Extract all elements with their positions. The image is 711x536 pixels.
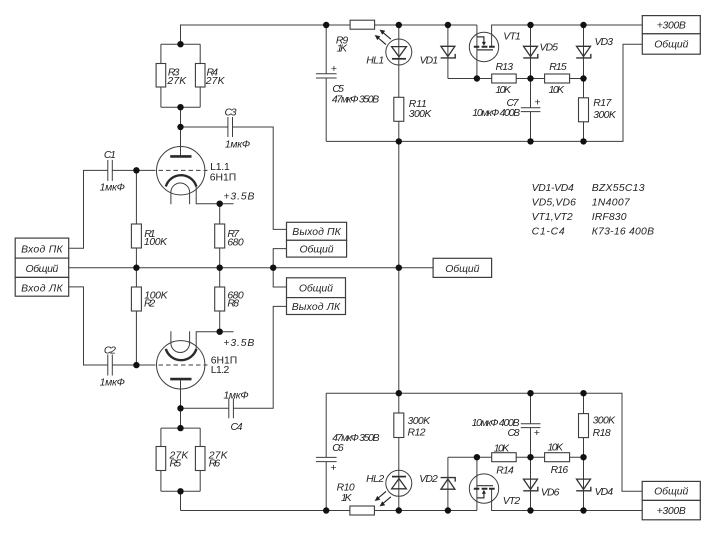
svg-text:VD2: VD2 [419,474,438,485]
svg-text:10мкФ 400В: 10мкФ 400В [472,108,520,119]
svg-text:VD4: VD4 [595,487,614,498]
svg-text:1мкФ: 1мкФ [100,377,125,388]
svg-text:VD1: VD1 [420,55,439,66]
svg-text:+3.5В: +3.5В [223,338,254,349]
svg-text:R6: R6 [209,458,221,469]
svg-text:Вход ЛК: Вход ЛК [21,283,63,294]
svg-text:C1-C4: C1-C4 [532,226,565,237]
svg-text:27K: 27K [166,76,187,87]
svg-text:+: + [331,64,337,75]
svg-text:VD1-VD4: VD1-VD4 [532,183,574,194]
svg-text:VD5,VD6: VD5,VD6 [532,197,577,208]
svg-text:+300В: +300В [657,20,686,31]
svg-text:1мкФ: 1мкФ [225,139,250,150]
svg-text:300K: 300K [593,110,617,121]
svg-text:C1: C1 [104,150,116,161]
svg-text:R18: R18 [593,428,611,439]
svg-text:L1.2: L1.2 [211,365,230,376]
svg-text:+: + [534,97,540,108]
svg-text:C3: C3 [225,107,237,118]
svg-text:C2: C2 [104,346,116,357]
svg-text:R2: R2 [144,298,155,309]
svg-text:300K: 300K [408,416,432,427]
svg-text:Общий: Общий [300,244,334,256]
svg-text:C4: C4 [231,422,243,433]
svg-text:К73-16 400В: К73-16 400В [592,226,654,237]
svg-text:+: + [534,428,540,439]
svg-text:Общий: Общий [654,486,688,498]
svg-text:+: + [330,463,336,474]
svg-text:Общий: Общий [445,263,479,275]
svg-text:R8: R8 [227,298,239,309]
svg-text:+3.5В: +3.5В [224,191,255,202]
svg-text:300K: 300K [593,415,617,426]
svg-text:Выход ЛК: Выход ЛК [292,302,341,313]
svg-text:VT1,VT2: VT1,VT2 [532,212,573,223]
svg-text:R13: R13 [496,62,514,73]
svg-text:R16: R16 [551,465,569,476]
svg-text:R17: R17 [593,98,612,109]
svg-text:BZX55C13: BZX55C13 [592,183,645,194]
svg-text:27K: 27K [205,76,226,87]
svg-text:Выход ПК: Выход ПК [292,227,341,238]
svg-text:R15: R15 [549,62,567,73]
svg-text:HL2: HL2 [366,474,384,485]
svg-text:VD3: VD3 [595,37,614,48]
svg-text:HL1: HL1 [366,55,384,66]
svg-text:IRF830: IRF830 [592,212,627,223]
svg-text:6Н1П: 6Н1П [210,173,236,184]
svg-text:680: 680 [227,237,244,248]
svg-text:300K: 300K [409,109,433,120]
svg-text:10K: 10K [549,85,566,96]
svg-text:VD5: VD5 [540,43,559,54]
svg-text:VT1: VT1 [503,31,521,42]
svg-text:1мкФ: 1мкФ [100,183,125,194]
svg-text:C6: C6 [332,443,344,454]
svg-text:+300В: +300В [657,506,686,517]
svg-text:Вход ПК: Вход ПК [21,245,63,256]
svg-text:100K: 100K [144,237,168,248]
svg-text:10K: 10K [548,443,565,454]
svg-text:Общий: Общий [299,283,333,295]
svg-text:VD6: VD6 [541,487,560,498]
svg-text:47мкФ 350В: 47мкФ 350В [332,94,379,105]
svg-text:10K: 10K [494,443,511,454]
svg-text:1N4007: 1N4007 [592,197,631,208]
svg-text:10K: 10K [495,85,512,96]
svg-text:R5: R5 [170,458,182,469]
svg-text:Общий: Общий [26,263,59,275]
svg-text:1мкФ: 1мкФ [223,390,248,401]
svg-text:VT2: VT2 [503,496,521,507]
svg-text:L1.1: L1.1 [210,162,230,173]
svg-text:1K: 1K [337,43,349,54]
svg-text:C8: C8 [508,428,520,439]
svg-text:Общий: Общий [654,39,688,51]
svg-text:R12: R12 [408,427,426,438]
svg-text:1K: 1K [341,493,353,504]
svg-text:R14: R14 [496,466,514,477]
